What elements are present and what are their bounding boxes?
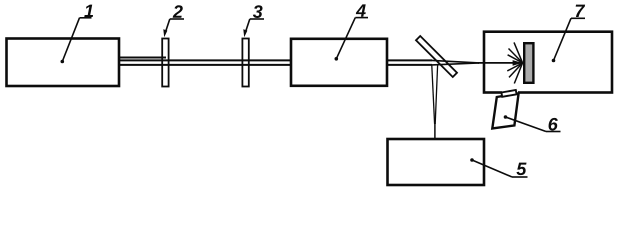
focus ray up shallow bbox=[508, 55, 523, 63]
label 4 leader line bbox=[336, 18, 355, 59]
focus ray down shallow bbox=[507, 63, 522, 71]
box 7 (chamber) bbox=[484, 32, 612, 93]
focus ray down mid bbox=[509, 63, 523, 78]
label 3 digit bbox=[253, 5, 263, 18]
label 3 underline bbox=[250, 18, 264, 20]
label 2 underline bbox=[170, 18, 184, 20]
wire: beam lower line box4 to splitter bbox=[387, 64, 432, 66]
label 5 digit bbox=[516, 163, 526, 176]
label 2 leader line bbox=[166, 19, 170, 32]
plate 2 bbox=[162, 39, 168, 87]
plate 3 bbox=[242, 39, 248, 87]
label 7 underline bbox=[571, 17, 585, 19]
wire: beam upper line splitter merging bbox=[432, 60, 479, 63]
wire: beam lower line box1 to box4 bbox=[119, 64, 291, 66]
wire: beam upper line box1 to box4 bbox=[119, 59, 291, 61]
beam arrowhead at target bbox=[513, 60, 523, 66]
box 5 (detector box) bbox=[388, 139, 485, 185]
label 5 leader line bbox=[472, 160, 512, 177]
label 4 digit bbox=[356, 4, 366, 16]
box 1 (laser) bbox=[7, 39, 120, 87]
label 5 underline bbox=[512, 176, 528, 178]
beamsplitter plate bbox=[416, 36, 457, 77]
label 1 leader line bbox=[62, 18, 79, 62]
label 5 leader dot bbox=[470, 158, 474, 162]
box 4 (amplifier) bbox=[291, 39, 387, 86]
label 6 leader dot bbox=[504, 115, 508, 119]
label 7 leader dot bbox=[552, 59, 556, 63]
wire: beam upper line box4 to splitter bbox=[387, 59, 432, 61]
gap in box 7 bottom edge bbox=[502, 91, 518, 95]
label 4 underline bbox=[355, 17, 368, 19]
label 1 underline bbox=[80, 17, 92, 19]
label 1 leader dot bbox=[61, 60, 65, 64]
label 2 digit bbox=[173, 5, 183, 18]
focus ray down steep bbox=[514, 63, 522, 84]
detector 6 cap bbox=[501, 90, 516, 97]
label 3 leader line bbox=[246, 19, 250, 32]
wire: reflected beam merged tail to box 5 bbox=[434, 123, 436, 139]
detector 6 body bbox=[492, 93, 518, 128]
label 2 arrowhead bbox=[163, 29, 167, 37]
label 1 digit bbox=[84, 5, 93, 17]
label 7 leader line bbox=[554, 18, 572, 60]
focus ray up steep bbox=[514, 42, 523, 63]
wire: reflected beam V right line down to box 5 bbox=[435, 66, 437, 125]
label 4 leader dot bbox=[335, 57, 339, 61]
label 6 underline bbox=[546, 131, 561, 133]
target plate in box 7 bbox=[524, 43, 533, 83]
label 7 digit bbox=[576, 5, 585, 17]
wire: reflected beam V left line down to box 5 bbox=[432, 66, 435, 125]
wire: beam single line into chamber to focus bbox=[478, 62, 522, 64]
wire: short extra beam line at laser exit bbox=[119, 57, 166, 59]
label 6 leader line bbox=[506, 117, 547, 132]
focus ray up mid bbox=[509, 49, 523, 63]
wire: beam lower line splitter merging bbox=[432, 63, 479, 65]
label 3 arrowhead bbox=[243, 29, 247, 37]
label 6 digit bbox=[549, 118, 558, 131]
